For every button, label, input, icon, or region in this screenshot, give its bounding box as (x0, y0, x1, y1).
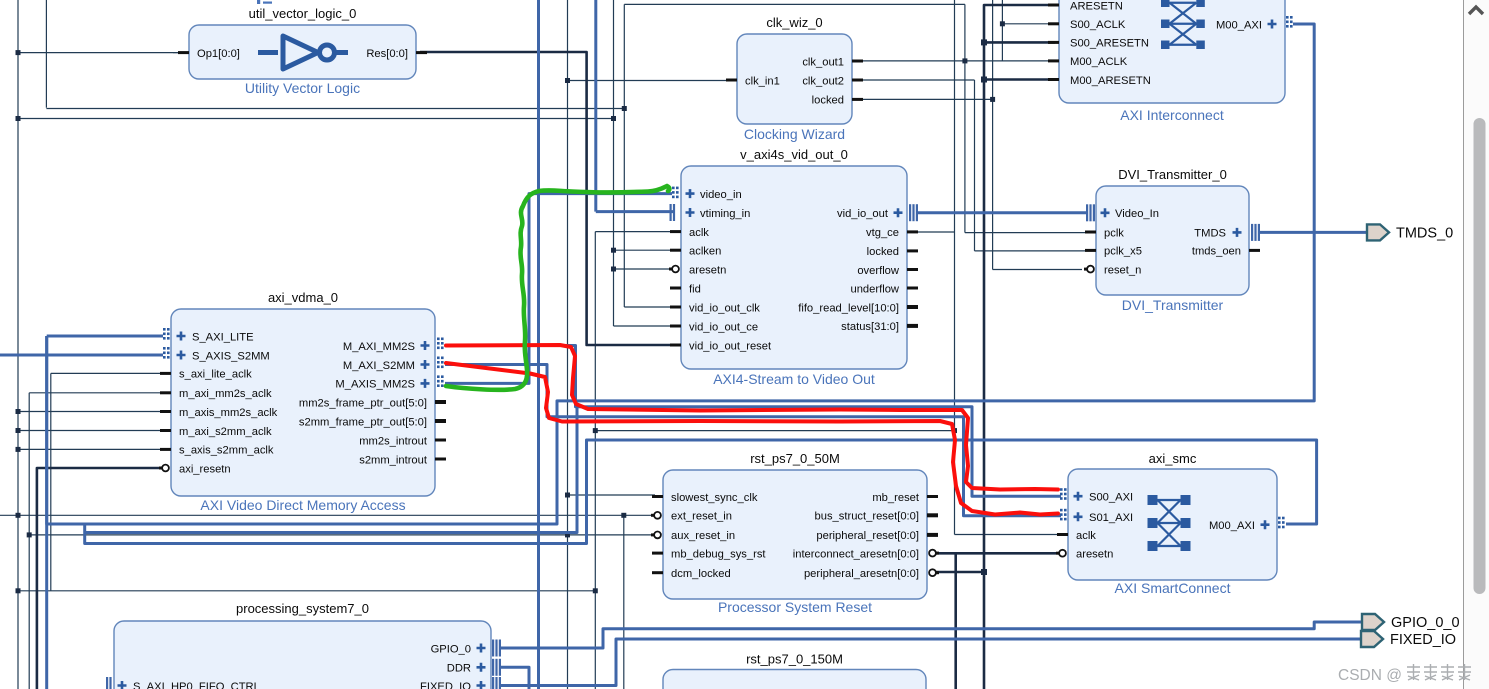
svg-text:reset_n: reset_n (1104, 264, 1141, 276)
svg-text:S_AXIS_S2MM: S_AXIS_S2MM (192, 350, 270, 362)
svg-text:FIXED_IO: FIXED_IO (1390, 632, 1456, 648)
svg-text:aclken: aclken (689, 246, 721, 258)
svg-text:ARESETN: ARESETN (1070, 0, 1123, 12)
svg-text:dcm_locked: dcm_locked (671, 568, 731, 580)
svg-text:S_AXI_HP0_FIFO_CTRL: S_AXI_HP0_FIFO_CTRL (133, 681, 260, 689)
svg-text:S00_ACLK: S00_ACLK (1070, 19, 1126, 31)
svg-text:Utility Vector Logic: Utility Vector Logic (245, 80, 360, 96)
svg-text:S00_ARESETN: S00_ARESETN (1070, 38, 1149, 50)
svg-text:M_AXI_S2MM: M_AXI_S2MM (343, 360, 415, 372)
svg-text:interconnect_aresetn[0:0]: interconnect_aresetn[0:0] (793, 548, 919, 560)
svg-text:AXI4-Stream to Video Out: AXI4-Stream to Video Out (713, 371, 875, 387)
svg-text:CSDN @: CSDN @ (1338, 667, 1402, 684)
svg-text:s_axis_s2mm_aclk: s_axis_s2mm_aclk (179, 445, 274, 457)
svg-text:M_AXI_MM2S: M_AXI_MM2S (343, 341, 415, 353)
svg-text:DVI_Transmitter_0: DVI_Transmitter_0 (1118, 167, 1227, 182)
svg-text:Res[0:0]: Res[0:0] (366, 48, 408, 60)
svg-text:aux_reset_in: aux_reset_in (671, 530, 735, 542)
svg-text:DVI_Transmitter: DVI_Transmitter (1122, 297, 1224, 313)
svg-text:TMDS_0: TMDS_0 (1396, 225, 1453, 241)
svg-text:GPIO_0: GPIO_0 (431, 643, 471, 655)
svg-text:rst_ps7_0_150M: rst_ps7_0_150M (746, 652, 843, 667)
svg-text:M00_AXI: M00_AXI (1216, 19, 1262, 31)
svg-text:pclk: pclk (1104, 227, 1124, 239)
svg-text:pclk_x5: pclk_x5 (1104, 246, 1142, 258)
svg-text:vtiming_in: vtiming_in (700, 208, 750, 220)
svg-text:S_AXI_LITE: S_AXI_LITE (192, 331, 254, 343)
svg-text:axi_vdma_0: axi_vdma_0 (268, 290, 338, 305)
svg-text:vtg_ce: vtg_ce (866, 227, 899, 239)
svg-text:mm2s_frame_ptr_out[5:0]: mm2s_frame_ptr_out[5:0] (299, 397, 427, 409)
svg-text:axi_resetn: axi_resetn (179, 463, 231, 475)
svg-text:Video_In: Video_In (1115, 208, 1159, 220)
svg-text:Clocking Wizard: Clocking Wizard (744, 126, 845, 142)
svg-text:clk_in1: clk_in1 (745, 75, 780, 87)
svg-text:clk_wiz_0: clk_wiz_0 (766, 15, 822, 30)
svg-text:GPIO_0_0: GPIO_0_0 (1391, 615, 1460, 631)
svg-text:mb_reset: mb_reset (872, 492, 920, 504)
svg-text:M00_AXI: M00_AXI (1209, 520, 1255, 532)
svg-text:s_axi_lite_aclk: s_axi_lite_aclk (179, 369, 252, 381)
svg-text:M00_ARESETN: M00_ARESETN (1070, 75, 1151, 87)
svg-text:rst_ps7_0_50M: rst_ps7_0_50M (750, 451, 840, 466)
svg-text:fifo_read_level[10:0]: fifo_read_level[10:0] (798, 302, 899, 314)
svg-text:vid_io_out: vid_io_out (837, 208, 889, 220)
svg-text:aclk: aclk (1076, 530, 1096, 542)
svg-text:util_vector_logic_0: util_vector_logic_0 (249, 6, 357, 21)
svg-text:S01_AXI: S01_AXI (1089, 512, 1133, 524)
svg-text:mb_debug_sys_rst: mb_debug_sys_rst (671, 548, 766, 560)
svg-text:aresetn: aresetn (689, 264, 726, 276)
svg-text:video_in: video_in (700, 189, 742, 201)
svg-text:vid_io_out_ce: vid_io_out_ce (689, 321, 758, 333)
svg-text:mm2s_introut: mm2s_introut (359, 435, 428, 447)
svg-text:S00_AXI: S00_AXI (1089, 492, 1133, 504)
svg-text:axi_smc: axi_smc (1149, 451, 1197, 466)
svg-text:peripheral_reset[0:0]: peripheral_reset[0:0] (816, 530, 919, 542)
svg-text:aclk: aclk (689, 227, 709, 239)
svg-text:AXI SmartConnect: AXI SmartConnect (1115, 580, 1231, 596)
svg-text:m_axis_mm2s_aclk: m_axis_mm2s_aclk (179, 407, 278, 419)
svg-text:underflow: underflow (850, 283, 899, 295)
svg-text:m_axi_mm2s_aclk: m_axi_mm2s_aclk (179, 388, 272, 400)
svg-text:locked: locked (812, 95, 844, 107)
svg-text:FIXED_IO: FIXED_IO (420, 681, 471, 689)
svg-text:DDR: DDR (447, 663, 471, 675)
svg-text:vid_io_out_clk: vid_io_out_clk (689, 302, 760, 314)
svg-text:m_axi_s2mm_aclk: m_axi_s2mm_aclk (179, 426, 272, 438)
svg-text:tmds_oen: tmds_oen (1192, 246, 1241, 258)
svg-text:overflow: overflow (857, 265, 900, 277)
svg-text:status[31:0]: status[31:0] (841, 321, 899, 333)
svg-text:v_axi4s_vid_out_0: v_axi4s_vid_out_0 (740, 147, 848, 162)
svg-text:slowest_sync_clk: slowest_sync_clk (671, 492, 758, 504)
svg-text:processing_system7_0: processing_system7_0 (236, 601, 369, 616)
svg-text:vid_io_out_reset: vid_io_out_reset (689, 340, 772, 352)
svg-text:s2mm_introut: s2mm_introut (359, 454, 428, 466)
svg-text:TMDS: TMDS (1194, 228, 1226, 240)
svg-text:clk_out2: clk_out2 (802, 75, 844, 87)
svg-text:Processor System Reset: Processor System Reset (718, 599, 872, 615)
svg-text:ext_reset_in: ext_reset_in (671, 511, 732, 523)
svg-text:AXI Interconnect: AXI Interconnect (1120, 107, 1224, 123)
svg-text:bus_struct_reset[0:0]: bus_struct_reset[0:0] (815, 511, 919, 523)
svg-text:peripheral_aresetn[0:0]: peripheral_aresetn[0:0] (804, 568, 919, 580)
svg-text:M00_ACLK: M00_ACLK (1070, 56, 1128, 68)
svg-text:locked: locked (867, 246, 899, 258)
svg-text:AXI Video Direct Memory Access: AXI Video Direct Memory Access (200, 497, 405, 513)
svg-text:Op1[0:0]: Op1[0:0] (197, 48, 240, 60)
svg-text:M_AXIS_MM2S: M_AXIS_MM2S (335, 379, 415, 391)
svg-text:s2mm_frame_ptr_out[5:0]: s2mm_frame_ptr_out[5:0] (299, 416, 427, 428)
svg-text:aresetn: aresetn (1076, 549, 1113, 561)
svg-text:clk_out1: clk_out1 (802, 56, 844, 68)
svg-text:fid: fid (689, 283, 701, 295)
